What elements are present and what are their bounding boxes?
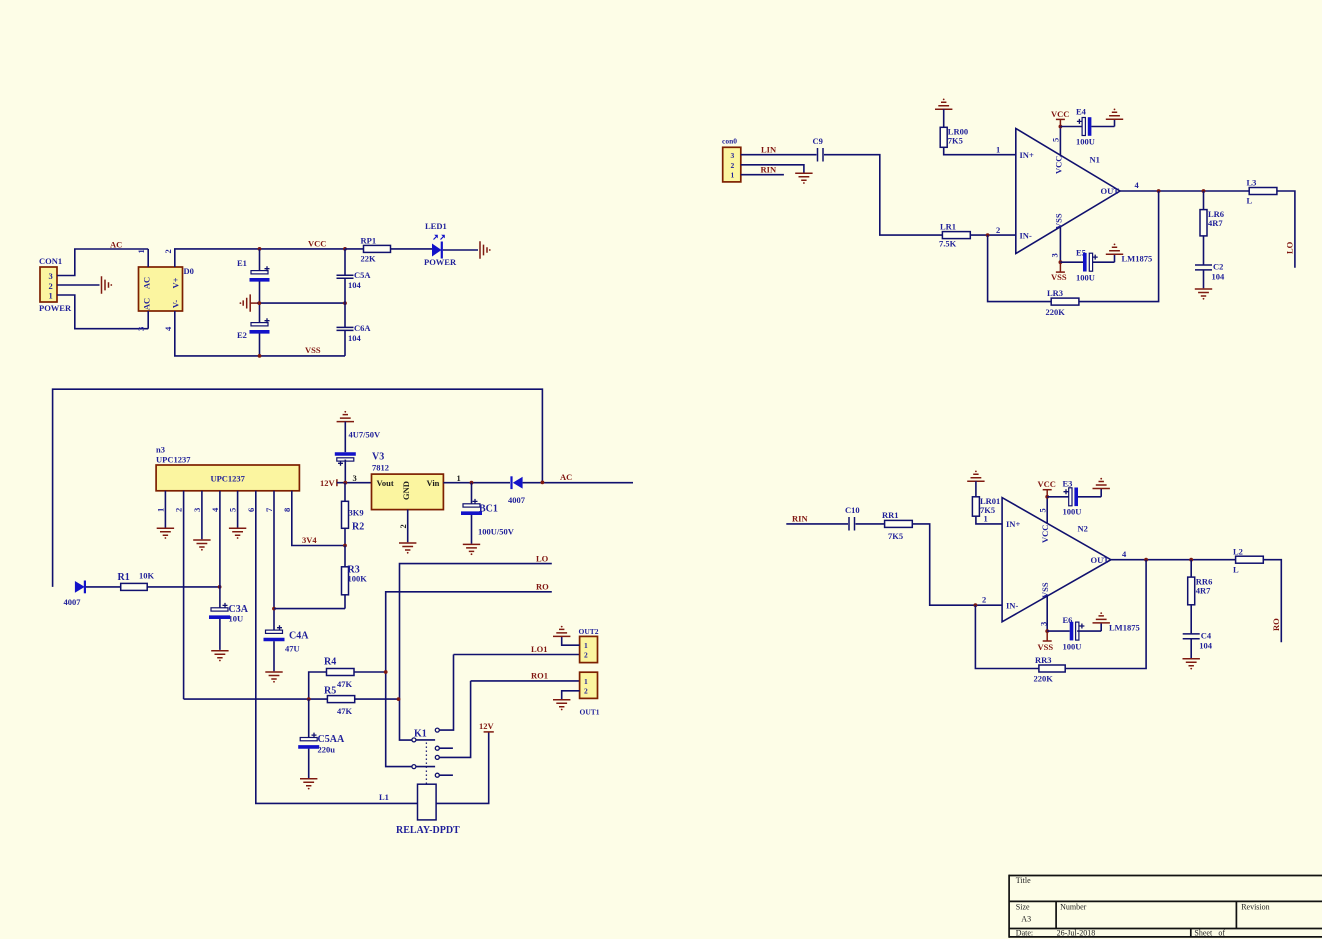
svg-text:GND: GND bbox=[401, 481, 411, 500]
svg-text:22K: 22K bbox=[361, 254, 377, 264]
svg-text:1: 1 bbox=[136, 249, 146, 253]
svg-text:12V: 12V bbox=[320, 478, 336, 488]
svg-text:IN-: IN- bbox=[1020, 231, 1032, 241]
svg-text:AC: AC bbox=[142, 277, 152, 289]
wire net RO bbox=[386, 592, 552, 767]
svg-text:E3: E3 bbox=[1063, 479, 1073, 489]
svg-text:5: 5 bbox=[228, 508, 238, 512]
svg-text:E4: E4 bbox=[1076, 107, 1087, 117]
power node VSS at N2 bbox=[1038, 629, 1054, 652]
junction 12V/4U7/R2 bbox=[343, 481, 347, 485]
resistor LR01 7K5 bbox=[972, 481, 1002, 524]
ground at BC1 bbox=[463, 544, 480, 555]
svg-text:L: L bbox=[1247, 196, 1253, 206]
svg-text:3V4: 3V4 bbox=[302, 535, 317, 545]
svg-text:VSS: VSS bbox=[305, 345, 321, 355]
wire CON1 pin1 to D0 pin3 bbox=[57, 295, 148, 329]
connector con0 bbox=[722, 137, 741, 182]
svg-text:104: 104 bbox=[348, 280, 362, 290]
wire relay coil right to 12V bbox=[436, 732, 489, 804]
resistor L2 (output inductor) bbox=[1233, 547, 1281, 643]
capacitor C3A bbox=[209, 603, 249, 650]
diode 4007 (AC detect) bbox=[508, 476, 526, 505]
pin 4 label N2 bbox=[1122, 549, 1127, 559]
svg-text:Revision: Revision bbox=[1241, 903, 1269, 912]
UPC1237 pin 5 stub and ground bbox=[228, 491, 238, 528]
svg-text:VCC: VCC bbox=[1038, 479, 1056, 489]
resistor RR3 220K feedback bbox=[975, 560, 1146, 684]
UPC1237 pin 4 wire down to C3A bbox=[210, 491, 220, 610]
svg-text:VSS: VSS bbox=[1051, 272, 1067, 282]
diode 4007 (left, to R1) bbox=[64, 581, 85, 608]
svg-text:4: 4 bbox=[210, 507, 220, 512]
wire big loop from R1 input up and across to AC diode bbox=[53, 389, 543, 587]
svg-text:7K5: 7K5 bbox=[948, 136, 963, 146]
pin 1 label N1 bbox=[996, 145, 1000, 155]
wire R1 to UPC1237 pin4 node bbox=[147, 586, 219, 588]
svg-text:K1: K1 bbox=[414, 729, 427, 740]
wire V3 pin1 to BC1 node bbox=[443, 482, 510, 484]
resistor R5 47K bbox=[309, 686, 399, 717]
part label LM1875 (N2) bbox=[1109, 623, 1140, 633]
svg-text:4007: 4007 bbox=[64, 597, 82, 607]
svg-text:IN+: IN+ bbox=[1006, 519, 1020, 529]
svg-text:LR1: LR1 bbox=[940, 222, 956, 232]
UPC1237 pin 8 wire to 3V4 node bbox=[282, 491, 345, 546]
svg-text:C4: C4 bbox=[1201, 631, 1212, 641]
N1 pin3 stub to VSS bbox=[1049, 227, 1060, 263]
UPC1237 pin 1 stub and number bbox=[156, 491, 166, 528]
capacitor BC1 bbox=[461, 483, 515, 544]
wire D0 pin3 stub bbox=[147, 311, 149, 329]
capacitor E3 100U bbox=[1063, 479, 1102, 517]
capacitor E5 100U bbox=[1060, 248, 1114, 283]
ground at C4A bbox=[265, 672, 282, 683]
ground at E5 bbox=[1106, 244, 1123, 263]
svg-text:POWER: POWER bbox=[424, 257, 457, 267]
K1 pole2 common contact bbox=[412, 765, 435, 769]
ground above LR00 bbox=[935, 99, 952, 110]
resistor LR3 220K feedback bbox=[988, 191, 1159, 317]
wire CON1 pin3 to node AC bbox=[57, 249, 148, 276]
svg-text:47K: 47K bbox=[337, 706, 353, 716]
junction pin7/C4A/R3 bbox=[272, 607, 276, 611]
wire pin7 node to R3 bottom bbox=[274, 608, 345, 610]
svg-text:AC: AC bbox=[560, 472, 572, 482]
svg-text:1: 1 bbox=[984, 514, 988, 524]
wire D0 pin4 to VSS rail bbox=[175, 311, 345, 356]
svg-text:LO1: LO1 bbox=[531, 644, 548, 654]
svg-text:RO: RO bbox=[1271, 618, 1281, 631]
svg-text:Title: Title bbox=[1016, 876, 1031, 885]
op-amp N2 bbox=[1002, 498, 1111, 622]
svg-text:RELAY-DPDT: RELAY-DPDT bbox=[396, 825, 460, 836]
svg-text:2: 2 bbox=[398, 524, 408, 528]
svg-text:C5AA: C5AA bbox=[318, 734, 345, 745]
node RIN label bbox=[761, 165, 777, 175]
svg-text:3: 3 bbox=[1038, 622, 1048, 626]
svg-text:OUT: OUT bbox=[1101, 186, 1120, 196]
wire VCC to E3 bbox=[1047, 496, 1070, 498]
wire LED1 to ground bbox=[443, 249, 478, 251]
ground at V3 pin2 bbox=[399, 543, 416, 554]
svg-text:3: 3 bbox=[731, 151, 735, 160]
capacitor C6A bbox=[337, 303, 372, 356]
relay switch K1 bbox=[414, 729, 427, 740]
svg-text:CON1: CON1 bbox=[39, 256, 62, 266]
junction RR1/feedback (N2) bbox=[974, 603, 978, 607]
svg-text:L: L bbox=[1233, 565, 1239, 575]
svg-text:E1: E1 bbox=[237, 258, 247, 268]
svg-text:7.5K: 7.5K bbox=[939, 239, 957, 249]
resistor R4 47K bbox=[309, 657, 386, 700]
resistor L3 (output inductor) bbox=[1247, 178, 1295, 268]
svg-text:BC1: BC1 bbox=[479, 504, 498, 515]
svg-text:7: 7 bbox=[264, 507, 274, 512]
capacitor E6 100U bbox=[1047, 615, 1101, 652]
svg-text:RIN: RIN bbox=[792, 514, 808, 524]
pin 1 label N2 bbox=[984, 514, 988, 524]
wire CON1 pin2 to ground bbox=[57, 284, 100, 286]
svg-text:4R7: 4R7 bbox=[1208, 218, 1223, 228]
ground above OUT2 bbox=[553, 626, 570, 637]
svg-text:C9: C9 bbox=[813, 136, 823, 146]
op-amp N1 bbox=[1016, 129, 1120, 254]
svg-text:Vin: Vin bbox=[427, 478, 440, 488]
pin 2 label N2 bbox=[982, 595, 986, 605]
svg-text:RR1: RR1 bbox=[882, 510, 899, 520]
K1 pole1 spare throw contact bbox=[435, 746, 453, 750]
svg-text:L3: L3 bbox=[1247, 178, 1257, 188]
svg-text:3: 3 bbox=[353, 473, 357, 483]
svg-text:LR3: LR3 bbox=[1047, 288, 1063, 298]
svg-text:1: 1 bbox=[584, 641, 588, 650]
svg-text:2: 2 bbox=[996, 225, 1000, 235]
part label LM1875 (N1) bbox=[1122, 254, 1153, 264]
svg-text:C4A: C4A bbox=[289, 631, 309, 642]
svg-text:104: 104 bbox=[1199, 641, 1213, 651]
resistor LR00 7K5 bbox=[940, 109, 1016, 155]
svg-text:10K: 10K bbox=[139, 571, 155, 581]
svg-text:con0: con0 bbox=[722, 137, 737, 146]
svg-text:UPC1237: UPC1237 bbox=[156, 455, 191, 465]
svg-text:26-Jul-2018: 26-Jul-2018 bbox=[1057, 929, 1096, 938]
svg-text:100U: 100U bbox=[1076, 273, 1095, 283]
power node VCC at N1 bbox=[1051, 109, 1069, 129]
svg-text:AC: AC bbox=[142, 298, 152, 310]
svg-text:L2: L2 bbox=[1233, 547, 1243, 557]
wire OUT1 pin2 to ground bbox=[562, 691, 580, 699]
ground at CON1 pin2 bbox=[102, 276, 113, 293]
svg-text:1: 1 bbox=[457, 473, 461, 483]
wire V3 pin2 to ground bbox=[407, 510, 409, 543]
svg-text:C2: C2 bbox=[1213, 262, 1223, 272]
ground above LR01 bbox=[967, 471, 984, 482]
svg-text:POWER: POWER bbox=[39, 303, 72, 313]
K1 pole1 throw contact to LO1 bbox=[435, 655, 453, 733]
svg-text:L1: L1 bbox=[379, 792, 389, 802]
svg-text:220u: 220u bbox=[318, 745, 336, 755]
svg-text:2: 2 bbox=[163, 249, 173, 253]
svg-text:VCC: VCC bbox=[1051, 109, 1069, 119]
svg-text:7K5: 7K5 bbox=[888, 531, 903, 541]
resistor RR6 4R7 bbox=[1188, 560, 1213, 634]
svg-text:104: 104 bbox=[1212, 272, 1226, 282]
resistor R2 3K9 bbox=[342, 483, 365, 546]
ground at E3 bbox=[1093, 478, 1110, 497]
junction OUT/zobel bbox=[1202, 189, 1206, 193]
svg-text:4: 4 bbox=[1135, 180, 1140, 190]
junction 3V4 bbox=[343, 544, 347, 548]
svg-text:R2: R2 bbox=[352, 522, 364, 533]
capacitor E4 100U bbox=[1076, 107, 1115, 147]
svg-text:1: 1 bbox=[49, 291, 53, 301]
junction R5/LO vertical bbox=[397, 697, 401, 701]
connector OUT1 bbox=[580, 672, 600, 716]
svg-text:VSS: VSS bbox=[1054, 213, 1064, 229]
junction R4/RO vertical bbox=[384, 670, 388, 674]
power node VCC at N2 bbox=[1038, 479, 1056, 499]
title block text bbox=[1016, 876, 1270, 938]
svg-text:4R7: 4R7 bbox=[1196, 586, 1211, 596]
wire RO1 bbox=[471, 680, 580, 682]
wire OUT2 pin1 to ground bbox=[562, 636, 580, 645]
capacitor C2 104 bbox=[1195, 262, 1225, 289]
svg-text:RO: RO bbox=[536, 582, 549, 592]
wire diode to R1 bbox=[86, 586, 121, 588]
node L1 label bbox=[379, 792, 389, 802]
ground above 4U7 cap bbox=[337, 411, 354, 422]
svg-text:LO: LO bbox=[536, 554, 549, 564]
ground at C3A bbox=[211, 651, 228, 662]
svg-text:V+: V+ bbox=[171, 277, 181, 288]
junction OUT/feedback (N2) bbox=[1144, 558, 1148, 562]
node RO label (output) bbox=[1271, 618, 1281, 631]
svg-text:1: 1 bbox=[996, 145, 1000, 155]
ground below OUT1 bbox=[553, 700, 570, 711]
svg-text:LM1875: LM1875 bbox=[1109, 623, 1140, 633]
node RIN label (N2) bbox=[792, 514, 808, 524]
svg-text:C10: C10 bbox=[845, 505, 860, 515]
title block frame bbox=[1009, 875, 1322, 938]
svg-text:A3: A3 bbox=[1021, 915, 1031, 924]
node VSS label bbox=[305, 345, 321, 355]
wire net LO bbox=[400, 564, 552, 741]
svg-text:104: 104 bbox=[348, 333, 362, 343]
svg-text:Size: Size bbox=[1016, 903, 1030, 912]
node RO1 label bbox=[531, 671, 548, 681]
ground at UPC1237 pin1 bbox=[157, 528, 174, 539]
svg-text:100U: 100U bbox=[1063, 642, 1082, 652]
junction R4R5/C5AA bbox=[307, 697, 311, 701]
junction VCC/E1 bbox=[258, 247, 262, 251]
K1 actuator dotted link bbox=[425, 743, 427, 784]
svg-text:LM1875: LM1875 bbox=[1122, 254, 1153, 264]
node LO1 label bbox=[531, 644, 548, 654]
svg-text:R1: R1 bbox=[118, 572, 130, 583]
power port 12V (relay) bbox=[479, 721, 495, 732]
LED LED1 POWER bbox=[424, 221, 457, 267]
connector OUT2 bbox=[579, 627, 599, 663]
node LO label (output) bbox=[1285, 241, 1295, 254]
svg-text:47K: 47K bbox=[337, 679, 353, 689]
svg-text:100U/50V: 100U/50V bbox=[478, 527, 515, 537]
svg-text:5: 5 bbox=[1037, 508, 1047, 512]
svg-text:1: 1 bbox=[156, 508, 166, 512]
pin 2 label N1 bbox=[996, 225, 1000, 235]
node LO label bbox=[536, 554, 549, 564]
capacitor E1 bbox=[237, 249, 270, 303]
ground at E4 bbox=[1106, 109, 1123, 127]
svg-text:10U: 10U bbox=[229, 614, 244, 624]
svg-text:VCC: VCC bbox=[1040, 525, 1050, 543]
svg-text:3K9: 3K9 bbox=[349, 508, 364, 518]
power port 12V (regulator output) bbox=[320, 478, 372, 488]
svg-text:V3: V3 bbox=[372, 452, 384, 463]
wire N1 output bbox=[1120, 190, 1249, 192]
wire D0 pin1 stub bbox=[147, 249, 149, 267]
svg-text:IN-: IN- bbox=[1006, 601, 1018, 611]
junction mid/C5A-C6A bbox=[343, 301, 347, 305]
svg-text:VSS: VSS bbox=[1040, 582, 1050, 598]
svg-text:VCC: VCC bbox=[308, 239, 326, 249]
svg-text:RR3: RR3 bbox=[1035, 655, 1052, 665]
wire LO1 bbox=[454, 654, 580, 656]
junction loop/diode/AC bbox=[541, 481, 545, 485]
N1 pin5 stub to VCC bbox=[1051, 127, 1061, 156]
svg-text:6: 6 bbox=[246, 508, 256, 512]
K1 pole2 throw contact to RO1 bbox=[435, 681, 470, 760]
node 3V4 label bbox=[302, 535, 317, 545]
node RO label bbox=[536, 582, 549, 592]
svg-text:3: 3 bbox=[192, 508, 202, 512]
N2 pin3 stub to VSS bbox=[1038, 596, 1048, 631]
wire D0 pin2 to VCC rail bbox=[175, 249, 345, 267]
svg-text:UPC1237: UPC1237 bbox=[210, 474, 245, 484]
junction mid/E-caps bbox=[257, 301, 261, 305]
resistor RR1 7K5 bbox=[882, 510, 912, 541]
ground at C4 bbox=[1183, 659, 1200, 670]
svg-text:3: 3 bbox=[49, 271, 53, 281]
wire pin2 node to R4/R5 bbox=[184, 698, 309, 700]
svg-text:8: 8 bbox=[282, 508, 292, 512]
capacitor C5AA 220u bbox=[298, 699, 345, 778]
svg-text:100K: 100K bbox=[348, 574, 368, 584]
UPC1237 pin 3 stub and ground bbox=[192, 491, 202, 540]
svg-text:Vout: Vout bbox=[377, 478, 394, 488]
svg-text:2: 2 bbox=[49, 281, 53, 291]
svg-text:100U: 100U bbox=[1063, 507, 1082, 517]
wire C9 to LR1 via corner bbox=[824, 155, 942, 235]
resistor R1 10K bbox=[118, 571, 155, 591]
node AC label bbox=[110, 240, 122, 250]
svg-text:RO1: RO1 bbox=[531, 671, 548, 681]
svg-text:4: 4 bbox=[1122, 549, 1127, 559]
svg-text:7812: 7812 bbox=[372, 463, 389, 473]
svg-text:VSS: VSS bbox=[1038, 642, 1054, 652]
node AC label (protection) bbox=[560, 472, 572, 482]
node VCC label bbox=[308, 239, 326, 249]
wire diode to AC node bbox=[523, 482, 633, 484]
UPC1237 pin 6 wire down to relay coil bbox=[246, 491, 418, 804]
capacitor C5A bbox=[337, 249, 372, 303]
svg-text:RP1: RP1 bbox=[361, 236, 377, 246]
ground at C5AA bbox=[300, 779, 317, 790]
relay coil L1 RELAY-DPDT bbox=[396, 784, 460, 836]
svg-text:12V: 12V bbox=[479, 721, 495, 731]
svg-text:3: 3 bbox=[1049, 253, 1059, 257]
svg-text:LO: LO bbox=[1285, 241, 1295, 254]
wire N2 output bbox=[1111, 559, 1236, 561]
N2 pin5 stub to VCC bbox=[1037, 497, 1047, 524]
svg-text:Sheet: Sheet bbox=[1194, 929, 1213, 938]
svg-text:R5: R5 bbox=[324, 686, 336, 697]
capacitor C4A bbox=[264, 625, 310, 671]
capacitor 4U7/50V bbox=[335, 422, 381, 483]
ground at C2 bbox=[1195, 289, 1212, 300]
K1 pole2 spare throw contact bbox=[435, 773, 453, 777]
wire con0 pin2 to ground bbox=[741, 165, 804, 173]
svg-text:1: 1 bbox=[584, 677, 588, 686]
svg-text:Number: Number bbox=[1060, 903, 1087, 912]
wire con0 pin1 RIN stub bbox=[741, 174, 784, 176]
svg-text:2: 2 bbox=[731, 161, 735, 170]
svg-text:OUT1: OUT1 bbox=[580, 708, 600, 717]
wire VCC to E4 bbox=[1060, 126, 1083, 128]
svg-text:E2: E2 bbox=[237, 330, 247, 340]
junction OUT/zobel (N2) bbox=[1189, 558, 1193, 562]
capacitor C10 bbox=[845, 505, 860, 531]
bridge rectifier D0 bbox=[136, 249, 194, 331]
svg-text:n3: n3 bbox=[156, 445, 165, 455]
svg-text:2: 2 bbox=[584, 651, 588, 660]
wire RR1 to N2 IN- bbox=[912, 524, 1002, 605]
UPC1237 pin 7 wire down to C4A bbox=[264, 491, 274, 632]
capacitor C4 104 bbox=[1183, 631, 1213, 659]
resistor R3 100K bbox=[342, 546, 368, 609]
junction VCC/C5A bbox=[343, 247, 347, 251]
svg-text:N2: N2 bbox=[1078, 524, 1088, 534]
svg-text:VCC: VCC bbox=[1054, 156, 1064, 174]
junction OUT/feedback bbox=[1157, 189, 1161, 193]
pin 4 label N1 bbox=[1135, 180, 1140, 190]
svg-text:Date:: Date: bbox=[1016, 929, 1033, 938]
resistor LR1 7.5K bbox=[939, 222, 1016, 249]
svg-text:2: 2 bbox=[982, 595, 986, 605]
regulator V3 7812 bbox=[353, 452, 461, 529]
svg-text:5: 5 bbox=[1051, 138, 1061, 142]
wire RIN stub to C10 bbox=[786, 523, 848, 525]
junction VSS/E2 bbox=[258, 354, 262, 358]
resistor RP1 bbox=[345, 236, 432, 264]
resistor LR6 4R7 bbox=[1200, 191, 1224, 265]
svg-text:47U: 47U bbox=[285, 644, 300, 654]
svg-text:IN+: IN+ bbox=[1020, 150, 1034, 160]
svg-text:N1: N1 bbox=[1090, 155, 1100, 165]
svg-text:AC: AC bbox=[110, 240, 122, 250]
UPC1237 pin 2 wire down to R5 bbox=[174, 491, 184, 699]
svg-text:OUT: OUT bbox=[1091, 555, 1110, 565]
svg-text:C6A: C6A bbox=[354, 323, 371, 333]
svg-text:220K: 220K bbox=[1046, 307, 1066, 317]
junction R1/pin4/C3A bbox=[218, 585, 222, 589]
ground after LED1 bbox=[480, 241, 491, 258]
svg-text:220K: 220K bbox=[1034, 674, 1054, 684]
capacitor C9 bbox=[813, 136, 824, 162]
IC n3 UPC1237 bbox=[156, 445, 299, 491]
svg-text:3: 3 bbox=[136, 327, 146, 331]
svg-text:2: 2 bbox=[584, 687, 588, 696]
